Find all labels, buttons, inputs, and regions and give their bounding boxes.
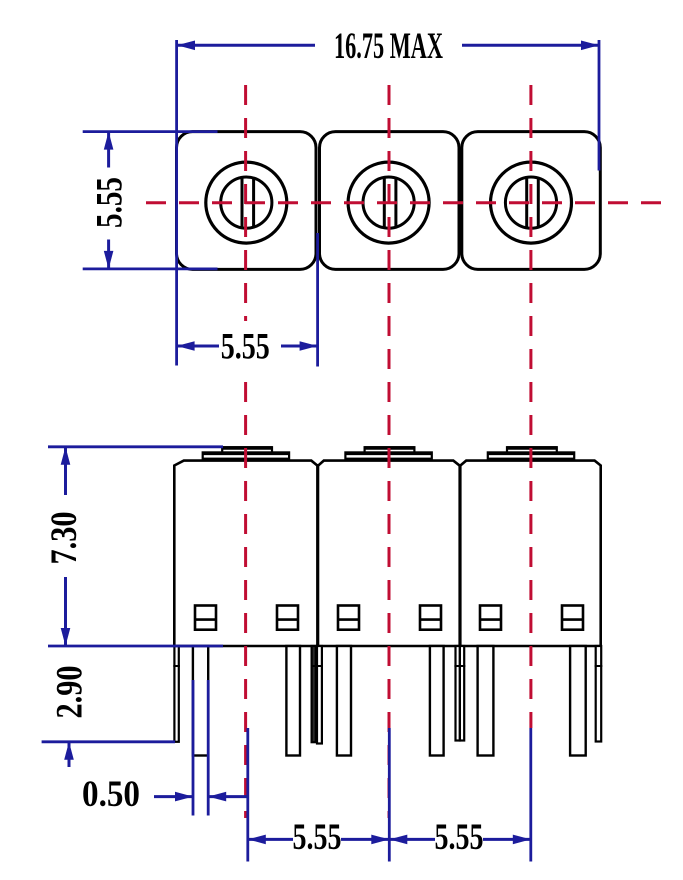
svg-text:0.50: 0.50 <box>82 774 140 815</box>
front view: unit 2 right square hole <box>420 606 441 630</box>
front view: unit 2 wide pin A <box>337 646 351 756</box>
centerline: horizontal red dashed through rotors <box>146 201 662 204</box>
front view: unit 3 left square hole <box>480 606 501 630</box>
dimension 5.55 width (under square 1): label <box>219 321 273 372</box>
dimension 5.55 width (under square 1): extension line right <box>316 233 319 367</box>
front view: unit 3 cap small plate <box>507 447 557 452</box>
front view: unit 3 narrow pin at junction 2-3 <box>459 646 466 741</box>
dimension 0.50: dimension lines and arrows <box>154 792 248 802</box>
front view: unit 1 narrow pin at junction 1-2 <box>311 646 317 742</box>
svg-text:2.90: 2.90 <box>50 666 91 719</box>
top view: unit 3 screw slot lines <box>527 179 539 228</box>
dimension 5.55 height (top view): extension lines <box>83 132 218 269</box>
top view: unit 1 rotor outer circle <box>206 162 287 243</box>
front view: unit 1 left square hole <box>195 606 216 630</box>
dimension 5.55 pitch 2-3: dimension line and arrows <box>389 835 531 845</box>
front view: unit 1 wide pin A <box>193 646 208 756</box>
front view: unit 3 right square hole <box>562 606 583 630</box>
dimension 2.90: label <box>50 666 91 719</box>
dimension 16.75 MAX: label <box>334 26 443 67</box>
front view: unit 2 cap big plate <box>345 452 431 458</box>
front view: unit 2 narrow pin at junction 2-3 <box>454 646 461 741</box>
dimension 16.75 MAX: dimension line and arrows <box>177 41 599 51</box>
dimension 5.55 pitch 1-2: extension lines <box>248 728 531 862</box>
top view: unit 2 rotor outer circle <box>348 162 429 243</box>
top view: unit 1 body outline (rounded square) <box>177 132 317 270</box>
top view: unit 3 rotor outer circle <box>491 162 572 243</box>
dimension 0.50: label <box>82 774 140 815</box>
svg-text:16.75 MAX: 16.75 MAX <box>334 26 443 67</box>
front view: unit 3 cap big plate <box>488 452 574 458</box>
front view: bodies outline with chamfered corners <box>174 461 600 646</box>
top view: unit 3 body outline (rounded square) <box>462 132 601 270</box>
top view: unit 1 rotor inner circle <box>221 177 272 228</box>
front view: body bottom edge <box>174 645 600 648</box>
front view: unit 1 narrow pin left edge <box>173 646 180 742</box>
dimension 7.30: extension lines <box>48 447 223 646</box>
dimension 5.55 pitch 1-2: dimension line and arrows <box>248 835 389 845</box>
dimension 7.30: dimension line and arrows <box>61 447 71 646</box>
top view: unit 2 rotor inner circle <box>363 177 414 228</box>
top view: unit 2 screw slot lines <box>384 179 396 228</box>
top view: unit 2 body outline (rounded square) <box>320 132 460 270</box>
svg-text:5.55: 5.55 <box>221 327 270 368</box>
front view: unit 1 right square hole <box>277 606 298 630</box>
front view: unit 3 wide pin A <box>478 646 494 756</box>
svg-text:5.55: 5.55 <box>293 817 342 858</box>
dimension 5.55 height (top view): label <box>90 177 131 228</box>
svg-text:7.30: 7.30 <box>44 512 85 565</box>
front view: unit 2 cap small plate <box>365 447 415 452</box>
dimension 5.55 width (under square 1): dimension line and arrows <box>177 341 318 351</box>
dimension 2.90: extension line at pin bottom <box>42 740 175 743</box>
dimension 7.30: label <box>44 512 85 565</box>
centerline: unit 3 vertical red dashed <box>529 85 532 728</box>
dimension 0.50: extension lines over pin edges <box>193 680 208 816</box>
front view: unit 1 cap big plate <box>203 452 289 458</box>
front view: unit 2 narrow pin at junction 1-2 <box>316 646 323 744</box>
dimension 2.90: arrow below pointing up <box>64 742 74 767</box>
centerline: unit 1 vertical red dashed <box>244 85 247 818</box>
top view: unit 3 rotor inner circle <box>505 177 556 228</box>
svg-text:5.55: 5.55 <box>435 817 484 858</box>
front view: unit 2 wide pin B <box>430 646 444 756</box>
front view: unit 2 left square hole <box>338 606 359 630</box>
svg-text:5.55: 5.55 <box>90 177 131 228</box>
top view: unit 1 screw slot lines <box>242 179 254 228</box>
dimension 5.55 pitch 1-2: label <box>293 817 342 858</box>
dimension 16.75 MAX: extension lines <box>177 40 599 366</box>
dimension 5.55 pitch 2-3: label <box>435 817 484 858</box>
front view: unit 1 cap small plate <box>222 447 272 452</box>
dimension 5.55 height (top view): dimension line and arrows <box>104 132 114 269</box>
front view: unit 3 narrow pin right edge <box>595 646 603 742</box>
centerline: unit 2 vertical red dashed <box>388 85 391 818</box>
front view: junction line between unit 1 and 2 <box>316 464 319 646</box>
front view: unit 1 wide pin B <box>286 646 300 756</box>
front view: unit 3 wide pin B <box>570 646 586 756</box>
front view: junction line between unit 2 and 3 <box>458 464 461 646</box>
